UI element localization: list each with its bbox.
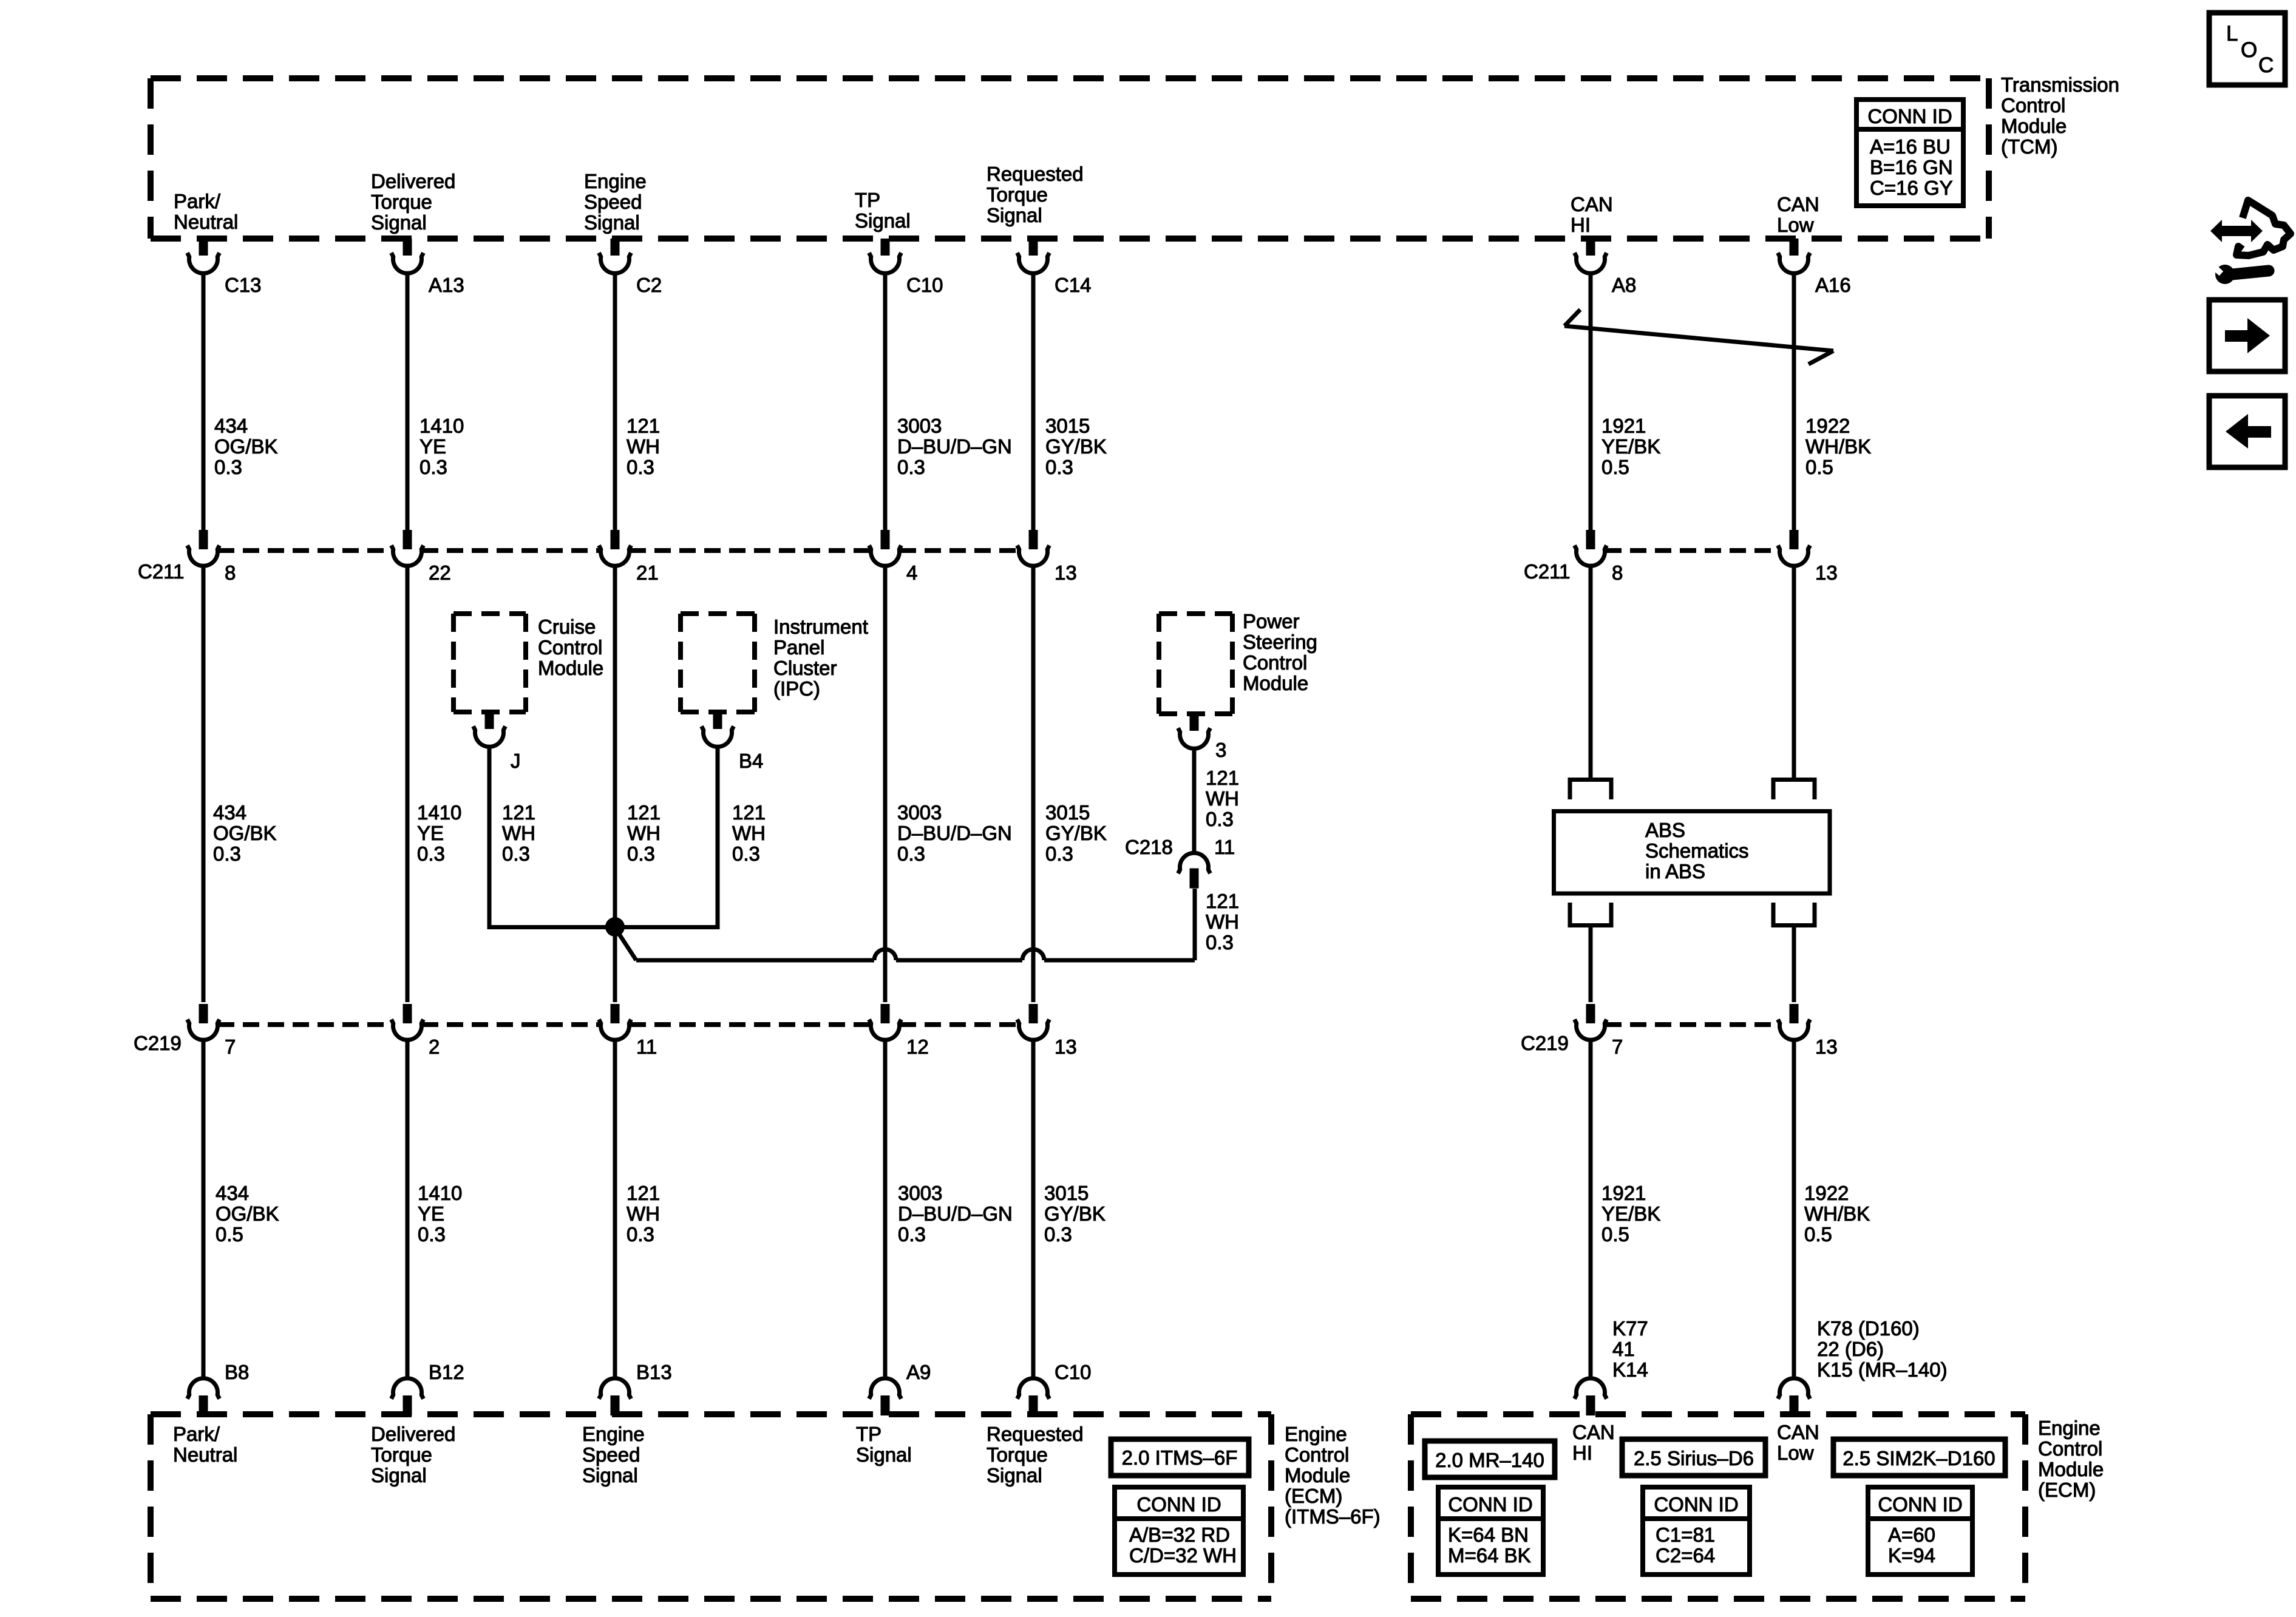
svg-text:Delivered: Delivered [371,1423,455,1445]
svg-text:Control: Control [1285,1443,1349,1466]
TCM title label [2001,73,2119,158]
wire 3003 D–BU/D–GN from C211 to C219 [883,564,888,1002]
connector pin C10 on ECM [1017,1361,1092,1415]
svg-text:B13: B13 [636,1361,672,1383]
svg-text:1410: 1410 [418,1182,462,1204]
svg-text:C211: C211 [138,560,184,583]
svg-text:C211: C211 [1524,560,1570,583]
svg-text:3003: 3003 [897,415,942,437]
svg-text:CONN ID: CONN ID [1136,1493,1221,1516]
svg-text:Module: Module [2001,115,2067,137]
svg-text:CONN ID: CONN ID [1878,1493,1962,1516]
twisted pair marker across CAN wires [1564,310,1833,364]
svg-text:C219: C219 [1521,1032,1569,1054]
bracket from CAN Low wire into ABS reference (top) [1773,780,1815,800]
svg-text:(IPC): (IPC) [773,677,820,700]
Engine Control Module (ECM ITMS-6F) dashed box [151,1414,1271,1599]
wire 121 WH from IPC B4 down to junction [615,745,718,927]
svg-text:Engine: Engine [582,1423,645,1445]
connector pin A16 on TCM [1778,239,1851,296]
wire label 3003 D–BU/D–GN 0.3 (upper section) [897,415,1012,478]
svg-text:Low: Low [1777,214,1814,236]
wire label 1922 WH/BK 0.5 (lower section) [1804,1182,1870,1246]
net reference K77 41 K14 on CAN HI [1612,1317,1648,1381]
connector CAN Low on ECM [1778,1378,1810,1415]
Power Steering Control Module dashed box [1159,614,1232,714]
connector pin B13 on ECM [599,1361,672,1415]
Cruise Control Module label [538,615,603,679]
svg-text:B=16 GN: B=16 GN [1870,156,1953,178]
svg-text:1921: 1921 [1601,415,1646,437]
svg-text:Signal: Signal [371,211,427,234]
svg-text:Requested: Requested [987,1423,1084,1445]
C211 inline connector, cavity 21 [599,530,659,584]
svg-text:CONN ID: CONN ID [1867,105,1952,127]
svg-text:0.3: 0.3 [1045,456,1073,478]
svg-text:Neutral: Neutral [174,211,238,233]
svg-text:0.3: 0.3 [502,842,530,865]
svg-text:11: 11 [636,1036,657,1058]
forward arrow box icon [2209,300,2285,371]
wire label 3003 D–BU/D–GN 0.3 (middle section) [897,801,1012,865]
svg-text:C1=81: C1=81 [1656,1524,1715,1546]
wire label 434 OG/BK 0.3 (upper section) [214,415,278,478]
svg-text:121: 121 [627,415,660,437]
C219 inline connector, cavity 12 [869,1004,929,1058]
svg-text:GY/BK: GY/BK [1044,1202,1106,1225]
svg-text:B8: B8 [225,1361,249,1383]
TCM pin function label Park/Neutral [174,190,238,233]
wire label 1921 YE/BK 0.5 (lower section) [1601,1182,1660,1246]
CAN HI wire from ABS bracket to C219 [1589,927,1593,1002]
connector pin J on Cruise Control Module [474,712,521,772]
svg-text:D–BU/D–GN: D–BU/D–GN [897,435,1012,458]
wire 3015 GY/BK from TCM to C211 [1031,272,1036,530]
wire 3003 D–BU/D–GN from C219 to ECM [883,1039,888,1380]
svg-text:K=64 BN: K=64 BN [1448,1524,1529,1546]
svg-text:Signal: Signal [371,1464,427,1486]
svg-text:41: 41 [1612,1338,1635,1360]
svg-text:WH: WH [732,822,766,844]
svg-text:TP: TP [856,1423,881,1445]
svg-text:Steering: Steering [1243,631,1317,653]
C219 inline connector, cavity 11 [599,1004,657,1058]
inline connector row C211 dotted line (right harness) [1605,548,1779,553]
svg-text:C=16 GY: C=16 GY [1870,177,1953,199]
wire 1922 WH/BK from C219 to ECM [1792,1039,1796,1380]
connector pin A8 on TCM [1575,239,1637,296]
ECM (ITMS-6F) title label [1285,1423,1381,1528]
C211 inline connector, cavity 8 [188,530,236,584]
TCM pin function label Engine Speed Signal [584,170,647,234]
C211 inline connector, cavity 13 [1778,530,1838,584]
svg-text:CONN ID: CONN ID [1448,1493,1532,1516]
2.5 Sirius-D6 harness box [1622,1439,1765,1476]
svg-text:D–BU/D–GN: D–BU/D–GN [898,1202,1013,1225]
svg-text:WH: WH [627,1202,660,1225]
svg-text:A/B=32 RD: A/B=32 RD [1129,1524,1230,1546]
wire 121 WH horizontal run to C218 with crossover hops [636,889,1195,960]
svg-text:B4: B4 [739,750,763,772]
svg-text:C10: C10 [906,274,943,296]
svg-text:0.5: 0.5 [1601,1223,1629,1246]
svg-text:13: 13 [1055,1036,1077,1058]
svg-text:OG/BK: OG/BK [213,822,277,844]
svg-text:WH: WH [627,435,660,458]
wire label 121 WH 0.3 (lower section) [627,1182,660,1246]
2.0 ITMS-6F harness box [1111,1439,1249,1476]
svg-text:1410: 1410 [417,801,461,824]
wire 1921 YE/BK from TCM to C211 [1589,272,1593,530]
svg-text:Signal: Signal [987,204,1042,226]
svg-text:Module: Module [1285,1464,1350,1486]
svg-text:Signal: Signal [987,1464,1042,1486]
svg-text:Instrument: Instrument [773,615,868,638]
svg-text:22: 22 [429,561,451,584]
wire label 121 WH 0.3 (IPC branch) [732,801,766,865]
svg-text:in ABS: in ABS [1645,860,1705,883]
svg-text:434: 434 [216,1182,249,1204]
svg-text:Engine: Engine [1285,1423,1347,1445]
C219 inline connector, cavity 7 [1575,1004,1623,1058]
wire label 1922 WH/BK 0.5 (upper section) [1805,415,1871,478]
svg-text:C10: C10 [1055,1361,1092,1383]
svg-text:J: J [511,750,521,772]
Transmission Control Module (TCM) dashed box [151,78,1989,239]
SIM2K CONN ID box [1868,1487,1972,1575]
svg-text:(TCM): (TCM) [2001,135,2057,158]
svg-text:121: 121 [627,1182,660,1204]
svg-text:12: 12 [906,1036,929,1058]
wire 121 WH from C219 to ECM [613,1039,617,1380]
svg-text:Speed: Speed [584,191,642,213]
connector pin C13 on TCM [188,239,262,296]
ECM pin function label CAN Low [1777,1421,1819,1464]
svg-text:Control: Control [2038,1437,2102,1460]
ECM pin function label Delivered Torque Signal [371,1423,455,1486]
svg-text:Signal: Signal [856,1443,912,1466]
svg-text:0.3: 0.3 [627,842,655,865]
connector pin B8 on ECM [188,1361,250,1415]
svg-text:K77: K77 [1612,1317,1648,1340]
svg-text:C14: C14 [1055,274,1092,296]
svg-text:Signal: Signal [855,209,911,232]
wire 434 OG/BK from C211 to C219 [202,564,206,1002]
ECM pin function label Requested Torque Signal [987,1423,1084,1486]
wire 121 WH from TCM to C211 [613,272,617,530]
wire label 3015 GY/BK 0.3 (middle section) [1045,801,1107,865]
svg-text:Panel: Panel [773,636,824,659]
svg-text:Park/: Park/ [174,190,221,212]
svg-text:(ECM): (ECM) [2038,1479,2096,1501]
ECM ITMS CONN ID box [1115,1487,1243,1575]
svg-text:Speed: Speed [582,1443,640,1466]
svg-text:8: 8 [1612,561,1623,584]
svg-text:0.3: 0.3 [897,842,925,865]
svg-text:Engine: Engine [584,170,647,192]
svg-text:CAN: CAN [1572,1421,1615,1443]
wire 1922 WH/BK from TCM to C211 [1792,272,1796,530]
back arrow box icon [2209,396,2285,467]
TCM pin function label TP Signal [855,189,911,232]
svg-text:Park/: Park/ [173,1423,220,1445]
C211 inline connector, cavity 22 [392,530,451,584]
svg-text:M=64 BK: M=64 BK [1448,1544,1531,1567]
svg-text:(ECM): (ECM) [1285,1485,1342,1507]
ECM pin function label TP Signal [856,1423,912,1466]
C211 inline connector, cavity 13 [1017,530,1077,584]
inline connector row C211 dotted line (left harness) [218,548,1019,553]
svg-text:0.3: 0.3 [627,456,654,478]
svg-text:0.3: 0.3 [213,842,241,865]
svg-text:3003: 3003 [897,801,942,824]
svg-text:YE: YE [417,822,444,844]
wire label 1921 YE/BK 0.5 (upper section) [1601,415,1660,478]
wire label 1410 YE 0.3 (upper section) [419,415,464,478]
svg-text:0.3: 0.3 [898,1223,926,1246]
svg-text:ABS: ABS [1645,819,1685,841]
TCM pin function label Requested Torque Signal [987,163,1084,226]
svg-text:1410: 1410 [419,415,464,437]
svg-text:Torque: Torque [371,1443,432,1466]
svg-text:WH: WH [627,822,661,844]
svg-text:A=60: A=60 [1888,1524,1935,1546]
svg-text:Low: Low [1777,1442,1814,1464]
svg-text:8: 8 [225,561,236,584]
svg-text:WH: WH [1206,787,1239,810]
svg-text:0.3: 0.3 [1206,808,1234,830]
svg-text:K=94: K=94 [1888,1544,1935,1567]
svg-text:7: 7 [1612,1036,1623,1058]
svg-text:121: 121 [1206,890,1239,912]
svg-text:HI: HI [1572,1442,1592,1464]
svg-text:3003: 3003 [898,1182,942,1204]
svg-text:C218: C218 [1125,836,1173,858]
svg-text:0.5: 0.5 [1804,1223,1832,1246]
connector pin B12 on ECM [392,1361,464,1415]
svg-text:YE: YE [419,435,446,458]
wire 3015 GY/BK from C219 to ECM [1031,1039,1036,1380]
2.5 SIM2K-D160 harness box [1833,1439,2005,1476]
bracket from CAN HI wire into ABS reference (top) [1570,780,1611,800]
svg-text:Module: Module [1243,672,1308,694]
svg-text:0.3: 0.3 [417,842,445,865]
svg-text:3: 3 [1215,739,1226,761]
svg-text:11: 11 [1214,836,1235,858]
svg-text:Power: Power [1243,610,1300,632]
svg-text:1921: 1921 [1601,1182,1646,1204]
svg-text:7: 7 [225,1036,236,1058]
svg-text:Cruise: Cruise [538,615,596,638]
wire label 3015 GY/BK 0.3 (upper section) [1045,415,1107,478]
wire label 434 OG/BK 0.3 (middle section) [213,801,277,865]
svg-text:(ITMS–6F): (ITMS–6F) [1285,1505,1381,1528]
svg-text:2.5 Sirius–D6: 2.5 Sirius–D6 [1634,1447,1754,1470]
svg-text:Module: Module [538,657,603,679]
Instrument Panel Cluster label [773,615,868,700]
ECM (right) title label [2038,1417,2104,1501]
svg-text:13: 13 [1055,561,1077,584]
Engine Control Module (ECM) dashed box (right) [1411,1414,2025,1599]
svg-text:0.3: 0.3 [897,456,925,478]
svg-text:22 (D6): 22 (D6) [1817,1338,1884,1360]
svg-text:0.3: 0.3 [214,456,242,478]
svg-text:3015: 3015 [1045,415,1090,437]
svg-text:Torque: Torque [987,1443,1048,1466]
svg-text:0.3: 0.3 [732,842,760,865]
connector CAN HI on ECM [1575,1378,1607,1415]
CAN HI wire 1921 from C211 to ABS bracket [1589,564,1593,778]
svg-text:C2=64: C2=64 [1656,1544,1715,1567]
svg-text:121: 121 [502,801,535,824]
svg-text:2.0 ITMS–6F: 2.0 ITMS–6F [1122,1446,1238,1469]
svg-text:A16: A16 [1815,274,1851,296]
Sirius CONN ID box [1643,1487,1750,1575]
svg-text:1922: 1922 [1804,1182,1849,1204]
connector pin C10 on TCM [869,239,943,296]
svg-text:Torque: Torque [371,191,432,213]
svg-text:C13: C13 [225,274,262,296]
wire 1410 YE from C219 to ECM [406,1039,410,1380]
svg-text:121: 121 [627,801,661,824]
wire 3015 GY/BK from C211 to C219 [1031,564,1036,1002]
connector pin B4 on IPC [702,712,764,772]
svg-text:WH/BK: WH/BK [1805,435,1871,458]
svg-text:A=16 BU: A=16 BU [1870,135,1951,158]
svg-text:YE/BK: YE/BK [1601,435,1660,458]
svg-text:121: 121 [1206,767,1239,789]
wire label 121 WH 0.3 (engine speed, middle section) [627,801,661,865]
ECM MR-140 CONN ID box [1438,1487,1543,1575]
svg-text:0.3: 0.3 [1206,931,1234,954]
C211 inline connector, cavity 4 [869,530,918,584]
C219 inline connector, cavity 13 [1778,1004,1838,1058]
svg-text:C2: C2 [636,274,662,296]
2.0 MR-140 harness box [1425,1441,1555,1477]
svg-text:WH: WH [1206,910,1239,933]
TCM CONN ID box [1856,100,1963,206]
svg-text:4: 4 [906,561,917,584]
svg-text:K14: K14 [1612,1358,1648,1381]
svg-text:3015: 3015 [1045,801,1090,824]
C211 inline connector, cavity 8 [1575,530,1623,584]
svg-text:K78 (D160): K78 (D160) [1817,1317,1920,1340]
wire label 121 WH 0.3 (cruise branch) [502,801,535,865]
svg-text:A9: A9 [906,1361,931,1383]
svg-text:TP: TP [855,189,880,211]
Power Steering Control Module label [1243,610,1317,694]
wire 121 WH engine speed from C211 to C219 [613,564,617,1002]
wire 1410 YE from C211 to C219 [406,564,410,1002]
Instrument Panel Cluster (IPC) dashed box [681,614,755,712]
TCM pin function label CAN Low [1777,193,1819,236]
svg-text:CAN: CAN [1777,193,1819,215]
wire label 121 WH 0.3 (upper section) [627,415,660,478]
ECM pin function label Engine Speed Signal [582,1423,645,1486]
svg-text:A8: A8 [1612,274,1636,296]
svg-text:0.3: 0.3 [1045,842,1073,865]
svg-text:0.5: 0.5 [1805,456,1833,478]
TCM pin function label CAN HI [1571,193,1613,236]
svg-text:CONN ID: CONN ID [1654,1493,1738,1516]
svg-text:GY/BK: GY/BK [1045,822,1107,844]
svg-text:Delivered: Delivered [371,170,455,192]
wire 1921 YE/BK from C219 to ECM [1589,1039,1593,1380]
connector pin C14 on TCM [1017,239,1092,296]
svg-text:L: L [2226,22,2238,46]
svg-text:Control: Control [2001,94,2065,117]
svg-text:434: 434 [213,801,246,824]
svg-text:OG/BK: OG/BK [216,1202,279,1225]
svg-text:3015: 3015 [1044,1182,1089,1204]
Cruise Control Module dashed box [453,614,526,712]
TCM pin function label Delivered Torque Signal [371,170,455,234]
svg-text:Control: Control [1243,651,1307,674]
service tool icon (double arrow, part outline, wrench) [2205,200,2291,284]
svg-text:2.0 MR–140: 2.0 MR–140 [1435,1449,1544,1471]
wire 1410 YE from TCM to C211 [406,272,410,530]
bracket from ABS reference to CAN Low wire (bottom) [1773,903,1815,926]
svg-text:13: 13 [1815,1036,1838,1058]
svg-text:D–BU/D–GN: D–BU/D–GN [897,822,1012,844]
svg-text:0.3: 0.3 [627,1223,654,1246]
svg-text:OG/BK: OG/BK [214,435,278,458]
svg-text:Control: Control [538,636,602,659]
wire label 1410 YE 0.3 (middle section) [417,801,461,865]
svg-text:2: 2 [429,1036,440,1058]
wire label 3015 GY/BK 0.3 (lower section) [1044,1182,1106,1246]
C219 inline connector, cavity 2 [392,1004,440,1058]
wire splice diagonal from junction [616,929,636,960]
C219 inline connector, cavity 13 [1017,1004,1077,1058]
bracket from ABS reference to CAN HI wire (bottom) [1570,903,1611,926]
CAN Low wire from ABS bracket to C219 [1792,927,1796,1002]
svg-text:434: 434 [214,415,248,437]
svg-text:CAN: CAN [1777,1421,1819,1443]
svg-text:WH/BK: WH/BK [1804,1202,1870,1225]
inline connector row C219 dotted line (left harness) [218,1022,1019,1027]
connector pin C2 on TCM [599,239,662,296]
wire label 434 OG/BK 0.5 (lower section) [216,1182,279,1246]
wire label 3003 D–BU/D–GN 0.3 (lower section) [898,1182,1013,1246]
wire label 121 WH 0.3 (below C218) [1206,890,1239,954]
svg-text:C: C [2258,53,2274,77]
svg-text:21: 21 [636,561,659,584]
inline connector row C219 dotted line (right harness) [1605,1022,1779,1027]
svg-text:Transmission: Transmission [2001,73,2119,96]
svg-text:0.3: 0.3 [1044,1223,1072,1246]
svg-text:1922: 1922 [1805,415,1850,437]
ABS Schematics reference box [1554,812,1830,894]
wire 121 WH from power steering module to C218 [1192,747,1197,855]
svg-text:13: 13 [1815,561,1838,584]
wire 434 OG/BK from TCM to C211 [202,272,206,530]
svg-text:0.5: 0.5 [216,1223,243,1246]
connector pin A13 on TCM [392,239,464,296]
svg-text:Neutral: Neutral [173,1443,237,1466]
inline connector C218 cavity 11 [1125,836,1235,889]
svg-text:Requested: Requested [987,163,1084,185]
svg-text:GY/BK: GY/BK [1045,435,1107,458]
svg-text:WH: WH [502,822,535,844]
svg-text:YE/BK: YE/BK [1601,1202,1660,1225]
wire 3003 D–BU/D–GN from TCM to C211 [883,272,888,530]
svg-text:0.3: 0.3 [419,456,447,478]
svg-text:Signal: Signal [582,1464,638,1486]
svg-text:A13: A13 [429,274,464,296]
svg-text:121: 121 [732,801,766,824]
wire 434 OG/BK from C219 to ECM [202,1039,206,1380]
